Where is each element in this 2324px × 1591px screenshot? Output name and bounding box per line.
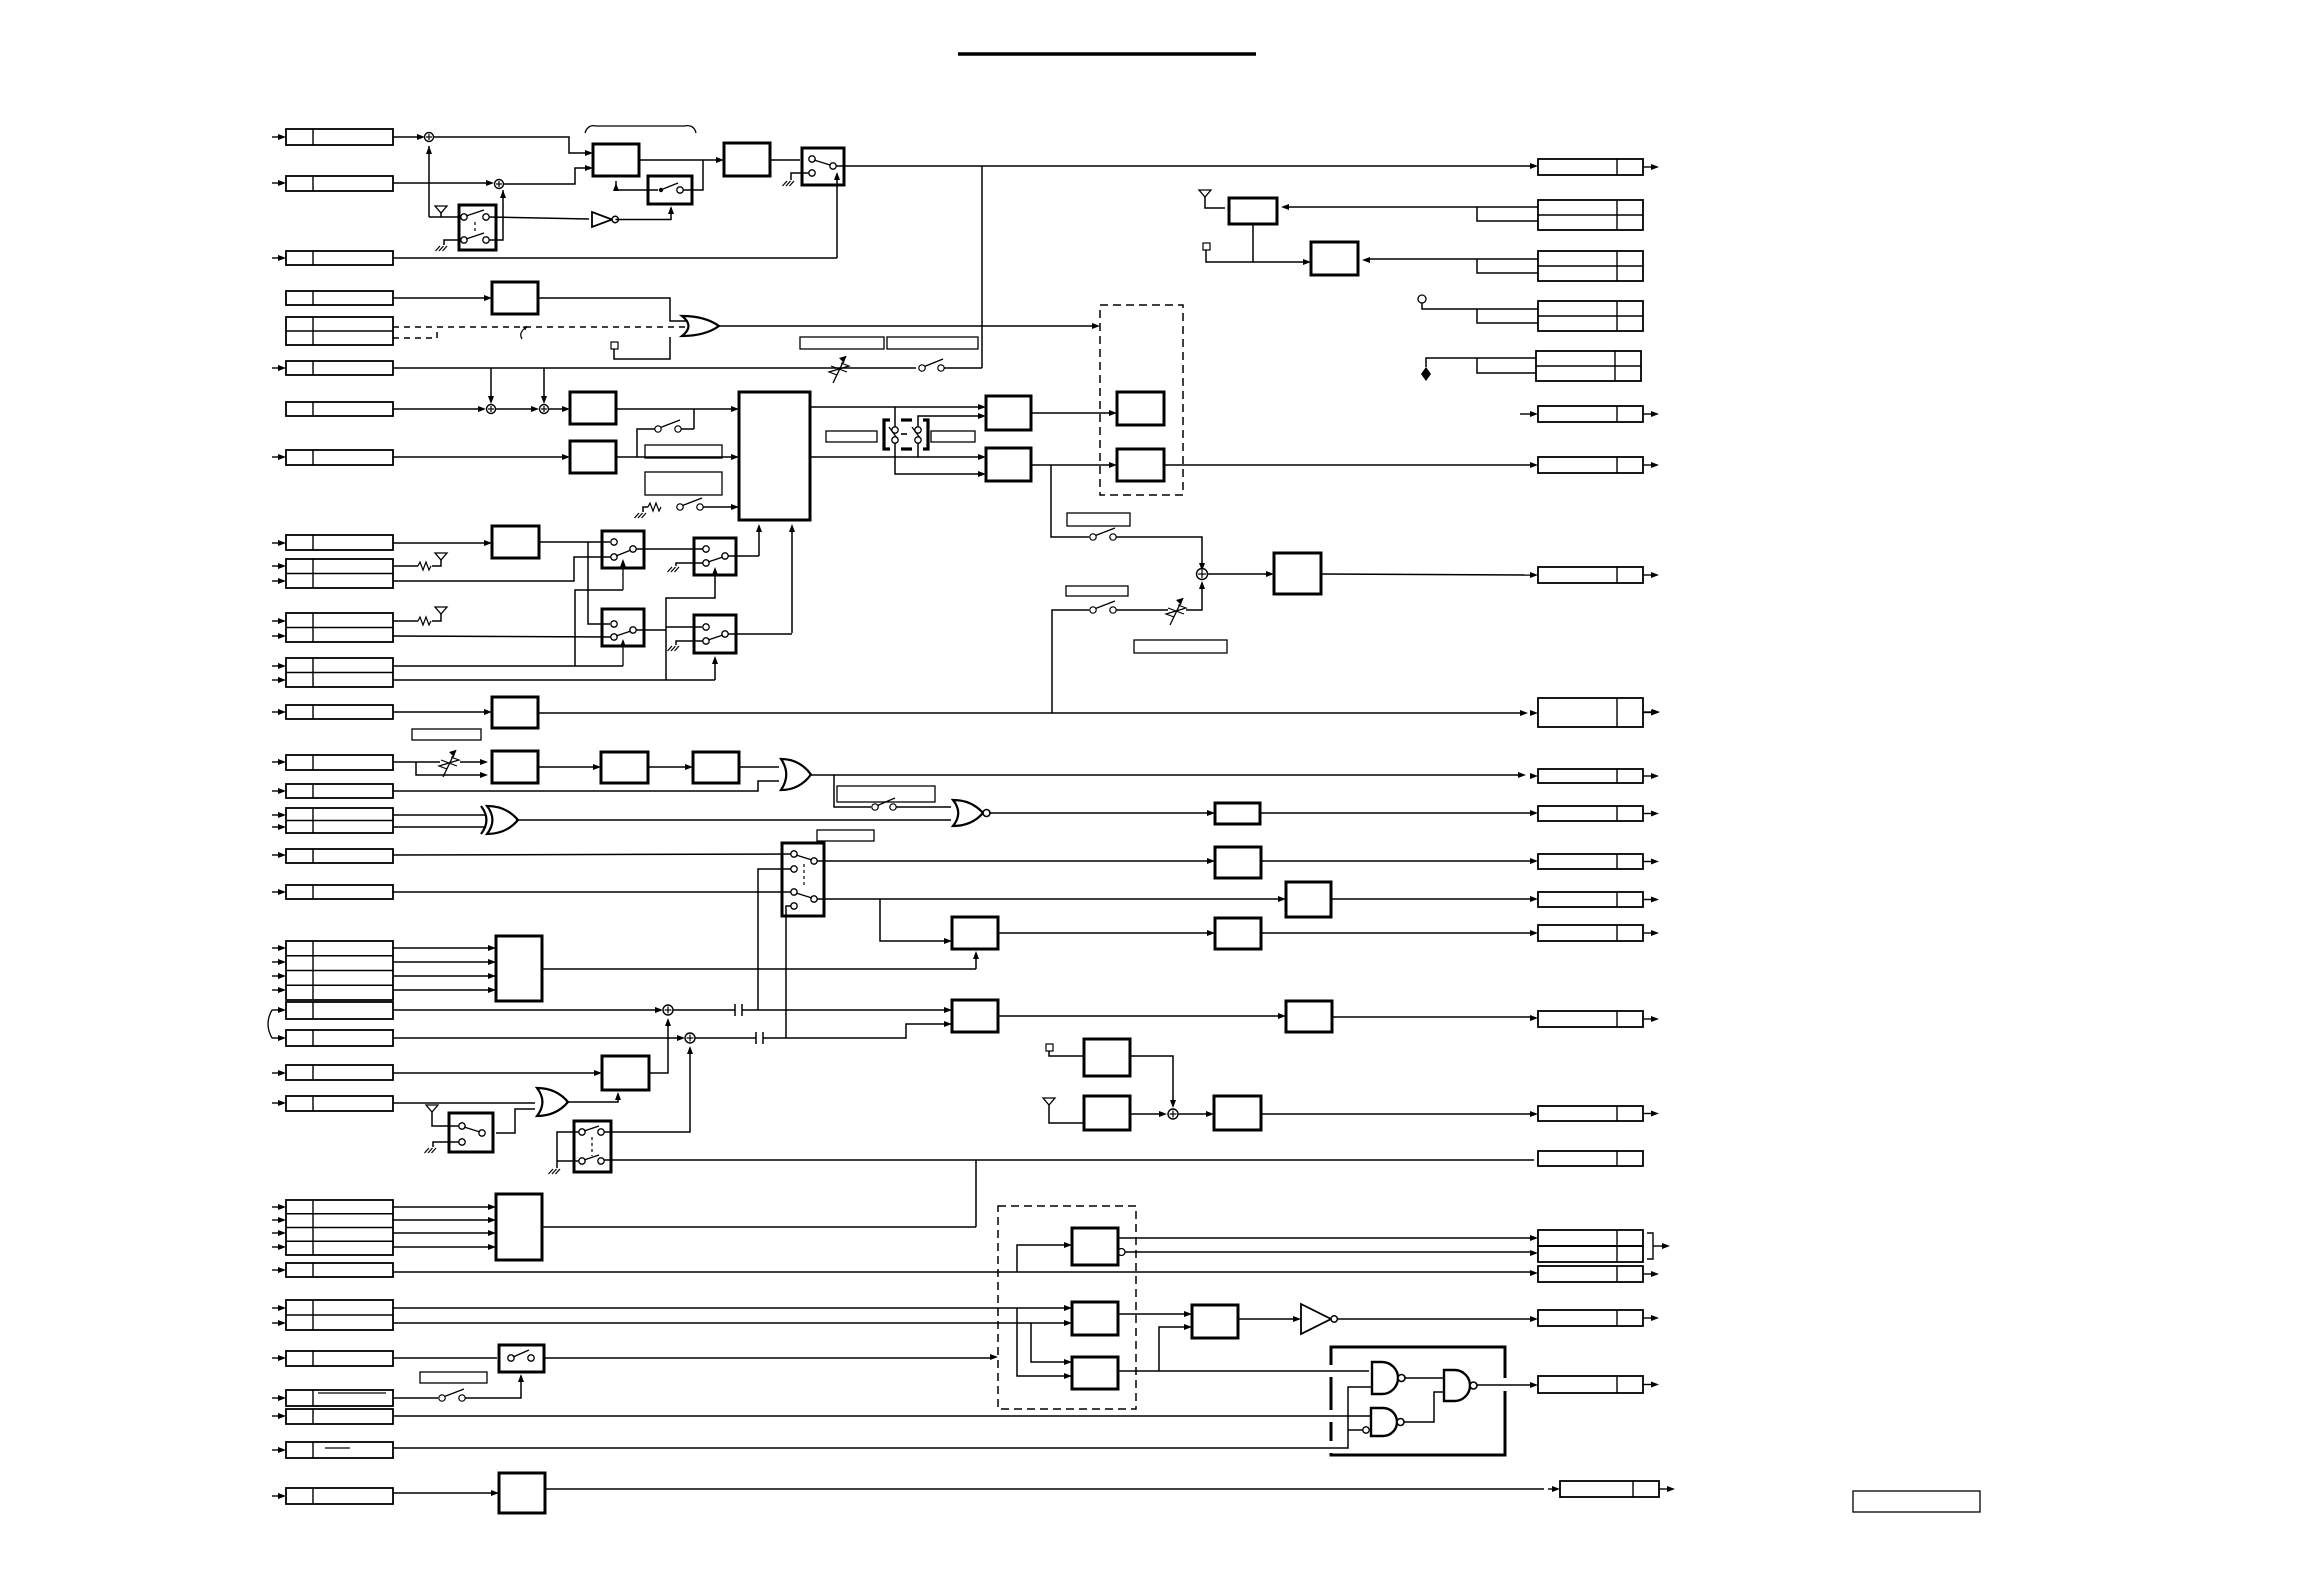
wire J8 to U6 [393,456,564,458]
wire S1 to INV1 [489,217,589,219]
wire U4 to OR1 [538,298,686,321]
arrow [585,165,593,171]
wire U30 down [1252,224,1254,262]
switch S10 [439,1395,445,1401]
blade [464,1127,480,1132]
arrow [1530,572,1538,578]
input connector J11 [286,613,393,642]
wire [272,679,279,681]
wire SWB out2 to U19 [817,898,1280,900]
wire [272,989,279,991]
wire S1 ground stub [444,240,461,245]
wire switch to big block [703,506,733,508]
blade [616,631,631,636]
arrow [488,1217,496,1223]
input connector J23 [286,1096,393,1111]
contact [508,1355,514,1361]
wire OR2 branch down [834,775,871,807]
contact [579,1129,585,1135]
wire J25 row2 to E2 in2 [393,1322,1066,1324]
switch S6 [677,504,683,510]
wire [272,1357,279,1359]
wire bypass right [693,409,695,429]
wire U6 to big block [616,456,733,458]
output connector K1 [1538,159,1643,175]
arrow [1184,1311,1192,1317]
input connector J28 [286,1409,393,1424]
actuator arrow [622,561,624,590]
switch box SB2 [694,538,736,575]
wire to E1 [1017,1245,1066,1272]
arrow [1184,1324,1192,1330]
wire J16 row1 [393,814,486,816]
input connector J12 [286,658,393,687]
blade [616,550,631,556]
wire J16 row2 [393,826,486,828]
input connector J9 [286,535,393,550]
wire matrix bottom left [895,443,980,474]
wire SW4 gnd [433,1142,459,1147]
wire [272,665,279,667]
dash link [901,433,907,435]
input connector J20 [286,1002,393,1019]
arrow [1207,810,1215,816]
wire SB2 out [728,555,759,557]
arrow [488,945,496,951]
output connector K9 [1538,698,1643,727]
wire stub to U31 [1206,250,1305,262]
wire terminal to K4 [1422,303,1538,309]
input connector J4 [286,291,393,305]
input connector J7 [286,402,393,416]
crossing arrow arc on dashed wire [521,330,523,339]
arrow [480,759,488,765]
input connector J17 [286,849,393,863]
arrow [615,1092,621,1100]
input connector J14 [286,755,393,770]
wire SWB tap1 down [758,869,791,1010]
input connector J16 [286,808,393,833]
arrow [484,540,492,546]
input connector J22 [286,1065,393,1080]
switch box SB3 [602,609,644,646]
arrow [1109,410,1117,416]
wire J25 row1 to E2 [393,1307,1066,1309]
wire U28 to K16 [1261,1113,1532,1115]
wire S3 output to K1 [836,165,1532,167]
wire trunk vertical [981,166,983,368]
blade [708,635,723,640]
block U11 [1117,449,1164,481]
antenna A5 [1043,1098,1055,1105]
riser to sum D [543,368,545,399]
block U14 [492,751,538,783]
arrow [789,524,795,532]
wire U20 to U21 [998,932,1209,934]
variable attenuator symbol [833,356,846,383]
arrow [668,206,674,214]
wire [272,1102,279,1104]
arrow2 [1530,710,1538,716]
wire branch to G7 bubble [1348,1429,1363,1431]
wire U32 out [542,1226,976,1228]
wire K2 row2 [1477,207,1538,221]
big block U7 [739,392,810,520]
wire switch S1 top line [429,216,461,218]
wire SB4 riser [791,526,793,633]
switch S9 [1090,607,1096,613]
dashed wire J5 row1 [393,326,688,328]
wire U16 to OR2 [739,766,779,768]
wire SB3 to SB4 left [636,629,666,631]
wire res to antenna [432,560,441,566]
arrow [417,134,425,140]
arrow [531,406,539,412]
switch matrix SM1 [884,420,928,449]
selector switch SWB [782,843,824,916]
arrow [1530,1250,1538,1256]
wire ground riser [643,507,648,512]
contact [598,1158,604,1164]
wire U18 to K12 [1261,860,1532,862]
value box VB7 [412,729,481,740]
block U32 [496,1194,542,1260]
wire U24 to K15 [1332,1016,1532,1018]
wire stub to U26 [1049,1051,1084,1056]
wire U13 to K9 [538,712,1520,714]
contact [483,237,489,243]
wire to E3 in2 [1017,1308,1066,1376]
NOR gate G4 [953,800,983,826]
contact [722,631,728,637]
wire J29 to latch [393,1387,1372,1448]
arrow [1170,1100,1176,1108]
output connector K13 [1538,892,1643,907]
wire U15 to U16 [648,766,687,768]
wire J11 row2 to SB3 [393,636,611,637]
summing junction G [1168,1109,1178,1119]
wire J24 row [393,1219,490,1221]
wire [272,565,279,567]
arrow [594,1070,602,1076]
arrow [1207,930,1215,936]
arrow [500,190,506,198]
wire J13 to U13 [393,711,486,713]
contact dot [659,188,663,192]
arrow [518,1374,524,1382]
input connector J15 [286,784,393,798]
wire J26 to SW6 [393,1357,497,1359]
wire K3 to U31 [1368,258,1538,260]
wire U29 to K8 [1321,574,1532,575]
arrow [488,1204,496,1210]
arrow [1064,1242,1072,1248]
block U21 [1215,918,1261,949]
wire E1 out1 to K18 [1118,1237,1532,1239]
value box VB10 [1067,513,1130,526]
wire U14 to U15 [538,766,595,768]
wire [272,367,279,369]
wire [272,1219,279,1221]
wire [272,1397,279,1399]
input connector J10 [286,559,393,588]
wire S3 actuator [836,174,838,258]
output connector K15 [1538,1011,1643,1027]
wire U8 to D1 [1031,412,1111,414]
wire J10 row1 [393,565,418,567]
antenna stem [432,1112,459,1126]
variable attenuator symbol [1170,598,1183,625]
wire J23 to OR3 [393,1102,535,1104]
output connector K8 [1538,567,1643,583]
arrow [756,524,762,532]
wire SW7 to SW6 actuator [465,1376,521,1398]
value box VB1 [800,337,884,349]
wire K2 to U30 [1287,206,1538,208]
wire to SB3 top [588,542,610,624]
input connector J5 [286,317,393,345]
wire INV1 to S2 actuator [616,208,672,220]
output connector K12 [1538,854,1643,869]
riser to sum C [490,368,492,399]
wire G7 to G8 [1404,1392,1444,1422]
arrow [480,772,488,778]
input bubble G7 [1363,1427,1369,1433]
wire SB1 to SB2 [636,548,703,550]
wire [272,1307,279,1309]
wire res to antenna [432,614,441,621]
input connector J8 [286,450,393,465]
summing junction H [1197,569,1208,580]
arrow [978,413,986,419]
switch box SB1 [602,531,644,568]
wire sum E to cap [673,1009,735,1011]
arrow [1199,563,1205,571]
switch S5 [655,426,661,432]
dashed wire J5 row2 [393,337,437,339]
wire [272,711,279,713]
wire [272,1322,279,1324]
arrow [731,454,739,460]
wire ctrl riser [666,569,715,680]
wire E3 out [1118,1370,1369,1372]
dashed group box DG2 [998,1206,1136,1409]
contact [915,427,921,433]
arrow [834,172,840,180]
wire B1 to B2 [639,159,720,161]
arrow [685,764,693,770]
wire diamond to K5 [1426,358,1536,367]
blade [513,1350,529,1357]
wire J22 to U25 [393,1072,596,1074]
input connector J1 [286,129,393,145]
wire J17 to SWB [393,854,791,855]
ground [668,646,673,651]
contact [809,156,815,162]
wire sum D to U5 [549,408,565,410]
output connector K2 [1538,200,1643,230]
wire B1 to S2 [616,181,658,190]
wire matrix top left [894,407,896,427]
block U18 [1215,847,1261,878]
blade [796,893,812,898]
wire U17 to K11 [1260,812,1532,814]
output connector K19 [1538,1246,1643,1262]
label line inside J29 [325,1447,350,1449]
terminal diamond [1421,367,1431,381]
wire switch to NOR [896,806,951,808]
arrow [990,1354,998,1360]
wire SWB tap2 down [786,906,791,1038]
wire J30 to U38 [393,1492,493,1494]
wire matrix top right [918,416,980,427]
input connector J3 [286,251,393,265]
wire [272,826,279,828]
wire B2 to S3 [770,159,800,161]
wire D2 branch [1051,465,1089,537]
contact [611,621,617,627]
block U4 [492,282,538,314]
wire [272,947,279,949]
block U38 [499,1473,545,1513]
input connector J6 [286,361,393,375]
output connector K7 [1538,457,1643,473]
bold frame around latch [1331,1347,1505,1378]
inverter U2 [592,212,612,227]
contact [791,903,797,909]
wire U7 out top [810,406,980,408]
value box VB6 [931,431,975,442]
arrow [1266,571,1274,577]
block U22 [496,936,542,1001]
wire [272,580,279,582]
input connector J26 [286,1351,393,1366]
wire into K23 [1548,1488,1552,1490]
arrow [1199,581,1205,589]
arrow [1530,1316,1538,1322]
arrow [488,987,496,993]
blade [814,160,830,165]
arrow [978,454,986,460]
contact [703,546,709,552]
wire bypass left [637,429,655,457]
wire SB1 act [575,590,623,666]
output connector K14 [1538,925,1643,941]
arrow [1530,896,1538,902]
contact [479,1130,485,1136]
contact [579,1158,585,1164]
arrow [1064,1359,1072,1365]
blade [912,427,920,438]
wire U9 to D2 [1031,464,1111,466]
wire [272,961,279,963]
arrow [1064,1305,1072,1311]
contact [598,1129,604,1135]
wire INV2 to K21 [1338,1318,1532,1320]
XOR gate G3 [481,806,486,834]
input connector J25 [286,1300,393,1330]
capacitor C2 [755,1032,757,1044]
arrow [1530,1015,1538,1021]
wire SB4 act [714,658,716,680]
wire U27 to sum G [1130,1113,1162,1115]
wire bypass blade right [681,428,694,430]
block U17 [1215,803,1260,824]
arrow [944,938,952,944]
arrow [1206,1111,1214,1117]
wire [272,1449,279,1451]
wire sum A bottom input [428,146,430,217]
wire K3 row2 [1477,259,1538,273]
switch S4 [919,365,925,371]
variable attenuator symbol [443,750,456,777]
wire cap to U23 in2 [763,1024,946,1038]
arrow [712,567,718,575]
summing junction E [663,1005,673,1015]
wire SB4 gnd stub [676,641,703,645]
arrow [1278,896,1286,902]
wire sum F to cap [695,1037,756,1039]
antenna A1 symbol [435,206,447,213]
wire E1 out2 to K19 [1125,1251,1532,1253]
wire [272,620,279,622]
ground [549,1169,554,1174]
wire U26 to sum G [1130,1056,1173,1104]
contact [722,553,728,559]
wire [272,854,279,856]
block U3 [724,143,770,176]
actuator arrow [622,641,624,666]
wire E2 to U36 [1118,1313,1186,1315]
contact [703,560,709,566]
antenna A6 [1199,190,1211,197]
arrow [944,1021,952,1027]
block U27 [1084,1096,1130,1130]
antenna A4 [426,1105,438,1112]
block U10 [1117,392,1164,425]
value box VB9 [817,830,874,841]
overbrace [585,126,696,133]
arrow2 [1530,773,1538,779]
value box VB3 [645,445,722,458]
output connector K10 [1538,769,1643,783]
arrow [1530,858,1538,864]
wire [272,257,279,259]
wire SW5 gnd left [557,1132,579,1168]
input connector J13 [286,705,393,719]
wire [272,635,279,637]
blade [796,855,812,860]
wire J28 to G7 [393,1415,1371,1417]
wire U12 to SB1 [539,541,610,543]
wire [272,1495,279,1497]
value box VB4 [645,472,722,495]
wire J10 row2 to SB1 [393,557,611,581]
antenna A2 [435,553,447,560]
wire J3 to S3 actuator [393,257,837,259]
input connector J18 [286,885,393,899]
block U20 [952,917,998,949]
wire J24 row [393,1232,490,1234]
dashed link [591,1137,593,1156]
contact [483,214,489,220]
output connector K21 [1538,1310,1643,1326]
arrow [484,295,492,301]
input connector J24b [286,1263,393,1277]
wire SB2 riser [758,526,760,556]
switch box S3 [802,148,844,185]
blade [584,1155,599,1160]
